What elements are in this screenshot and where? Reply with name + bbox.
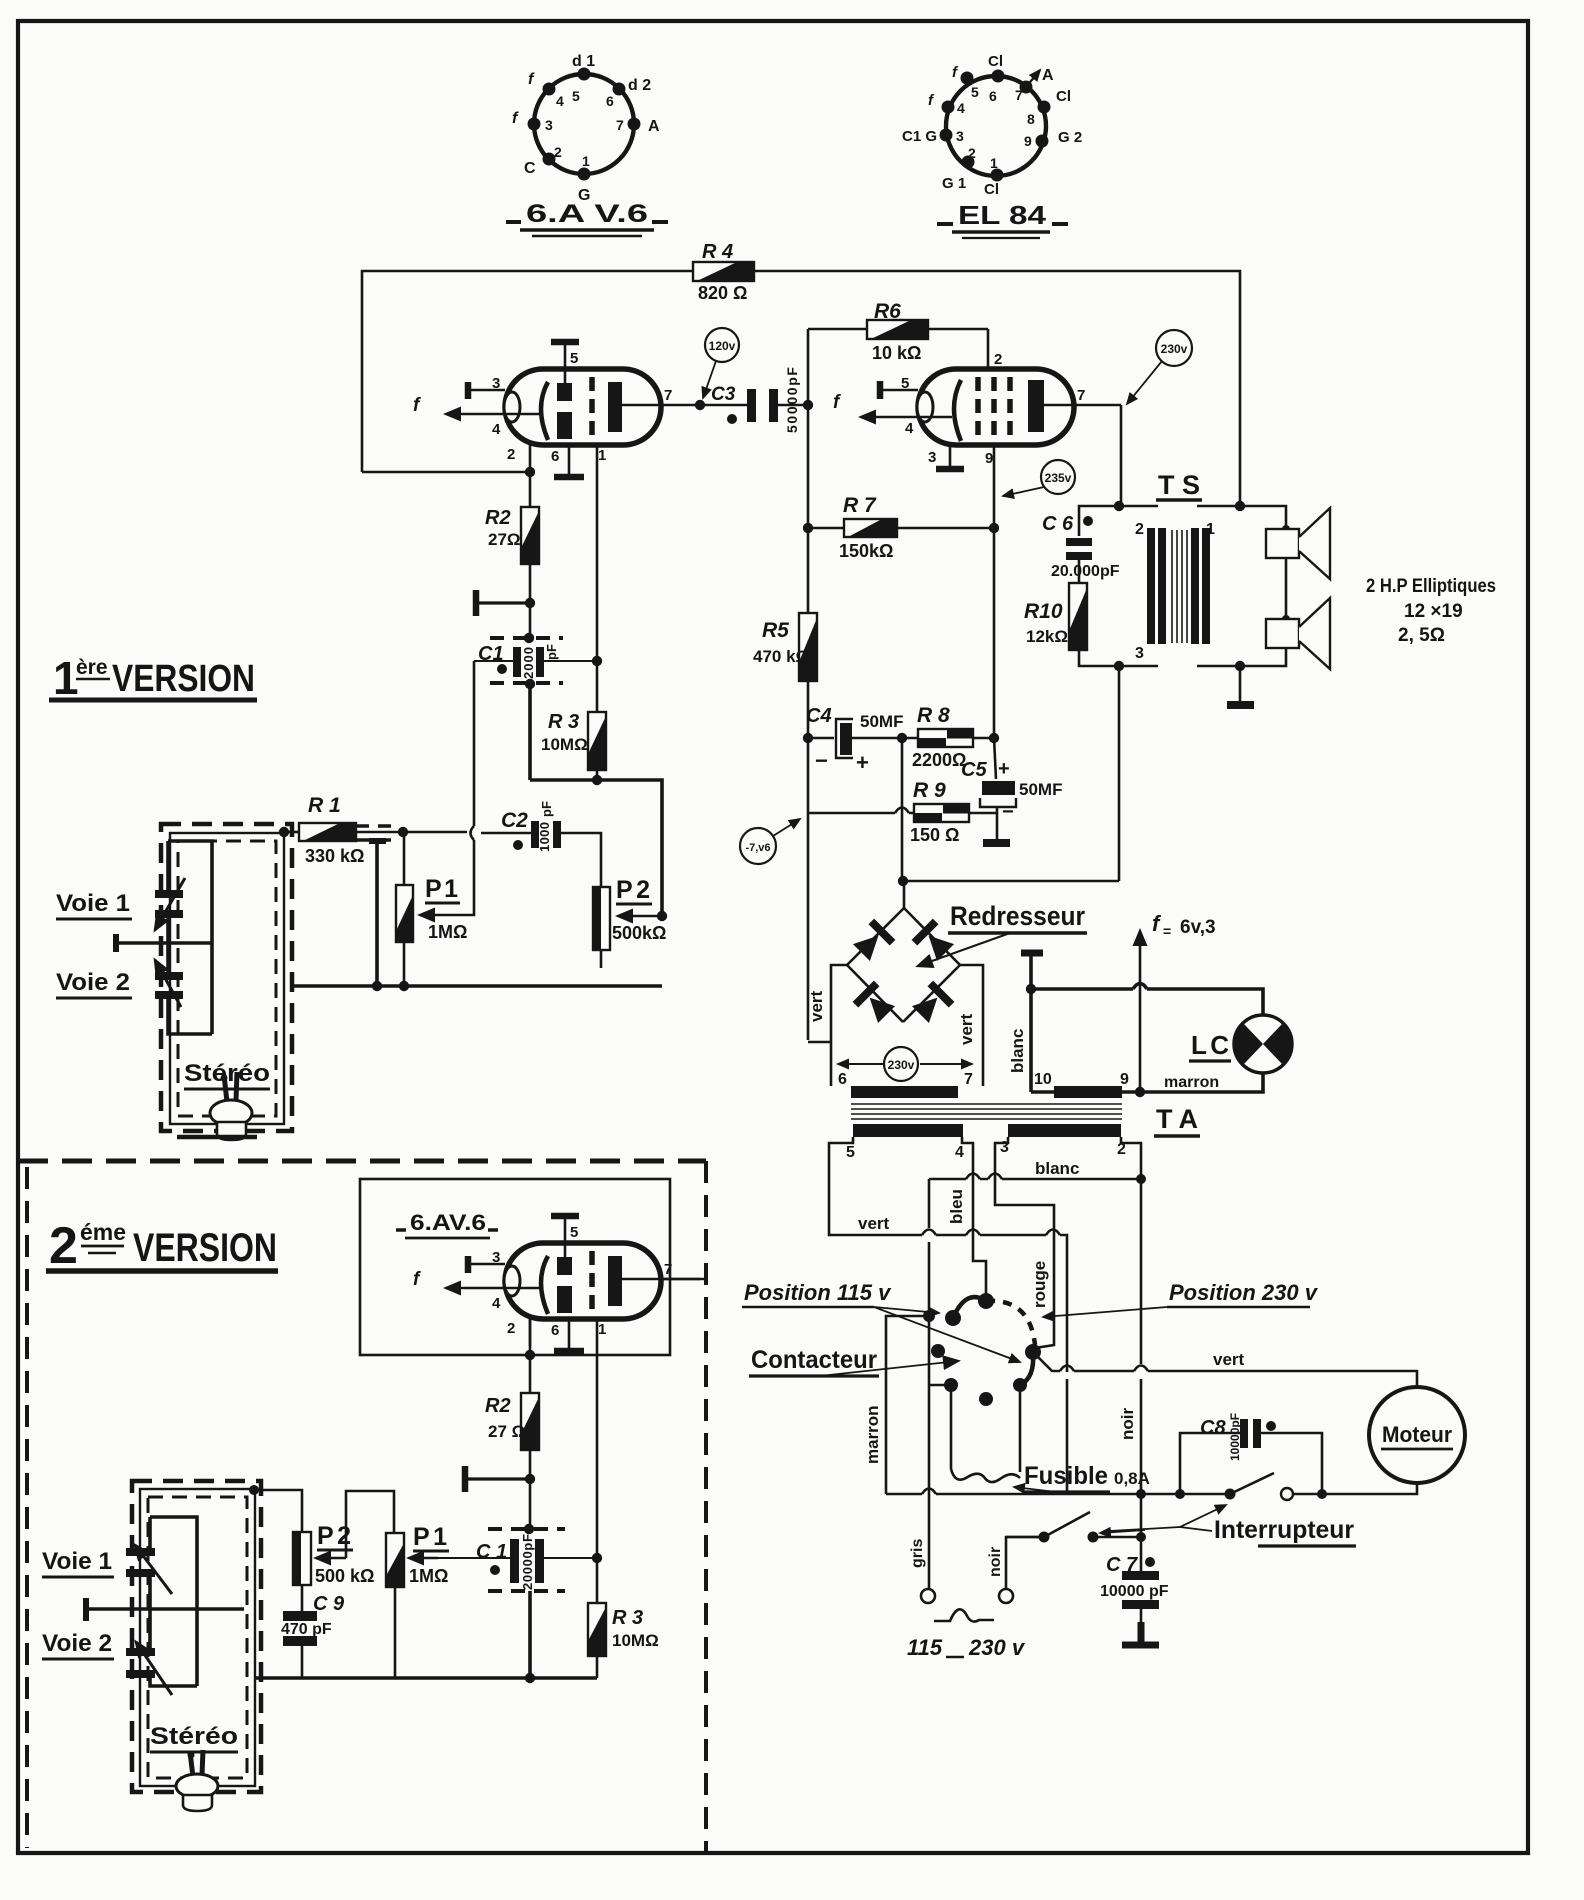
wire TA pin10 to terminal bbox=[1031, 1090, 1054, 1094]
chassis stub at R2 bottom bbox=[476, 590, 535, 616]
node bridge plus bbox=[898, 876, 908, 886]
svg-text:=: = bbox=[1163, 923, 1171, 939]
svg-text:5: 5 bbox=[901, 375, 909, 392]
svg-text:C 1: C 1 bbox=[476, 1541, 507, 1563]
svg-text:230 v: 230 v bbox=[968, 1635, 1026, 1660]
node R1/P1 bbox=[398, 827, 408, 837]
svg-text:235v: 235v bbox=[1045, 471, 1072, 485]
svg-text:230v: 230v bbox=[1161, 342, 1188, 356]
svg-text:330 kΩ: 330 kΩ bbox=[305, 846, 364, 866]
capacitor C9 470pF bbox=[281, 1585, 345, 1678]
bridge rectifier diamond bbox=[847, 908, 960, 1022]
pentode EL84 bbox=[833, 351, 1121, 469]
svg-text:blanc: blanc bbox=[1035, 1159, 1079, 1178]
rotor arm B-C solid bbox=[953, 1297, 986, 1318]
transformer TS primary loop bbox=[1079, 506, 1158, 666]
hop over f line bbox=[1133, 984, 1147, 990]
transformer TS secondary loop bbox=[1197, 506, 1286, 666]
label LC bbox=[1189, 1030, 1231, 1061]
wire grid node vertical (R6 to R5) bbox=[807, 329, 810, 613]
label Voie 1 (v2) bbox=[42, 1548, 114, 1577]
wire blanc horizontal bbox=[929, 1178, 1141, 1181]
svg-text:LC: LC bbox=[1191, 1030, 1229, 1060]
svg-text:9: 9 bbox=[1120, 1071, 1129, 1088]
wire C1 left plate down to P1 wiper (long) bbox=[420, 661, 474, 915]
resistor R2 (v2) bbox=[485, 1393, 539, 1450]
rotor arm D-H solid bbox=[1020, 1352, 1033, 1385]
wire C1 v2 shield to bottom bus bbox=[528, 1591, 532, 1678]
svg-text:20.000pF: 20.000pF bbox=[1051, 563, 1120, 580]
wire C1 shield down to ground bus bbox=[528, 684, 532, 780]
node R5 bottom / C4 bbox=[803, 733, 813, 743]
svg-text:6v,3: 6v,3 bbox=[1180, 917, 1216, 938]
TS secondary winding bars bbox=[1191, 528, 1199, 644]
f 6v3 arrow line bbox=[1139, 931, 1142, 1092]
voie 1 terminal v2 bbox=[86, 1598, 244, 1621]
wire pin1 v2 down bbox=[596, 1319, 599, 1603]
ground at TS secondary bbox=[1227, 666, 1254, 705]
node C3 output bbox=[803, 400, 813, 410]
svg-text:1: 1 bbox=[53, 652, 79, 704]
svg-text:1MΩ: 1MΩ bbox=[409, 1566, 448, 1586]
svg-text:1: 1 bbox=[990, 155, 998, 171]
resistor R3 (v2) bbox=[588, 1603, 659, 1678]
voltage circle -7,v6 bbox=[740, 819, 800, 864]
svg-text:P 1: P 1 bbox=[413, 1523, 447, 1551]
wire pin2 down to R2 v2 bbox=[529, 1319, 532, 1393]
svg-text:4: 4 bbox=[556, 93, 564, 109]
svg-text:Cl: Cl bbox=[1056, 88, 1071, 105]
svg-text:4: 4 bbox=[492, 421, 501, 438]
node pin2 junction bbox=[525, 467, 535, 477]
svg-text:C3: C3 bbox=[711, 384, 736, 405]
svg-text:500kΩ: 500kΩ bbox=[612, 923, 666, 943]
svg-text:vert: vert bbox=[1213, 1350, 1245, 1369]
svg-text:120v: 120v bbox=[709, 339, 736, 353]
resistor R9 150 bbox=[910, 779, 996, 845]
svg-text:Contacteur: Contacteur bbox=[751, 1346, 877, 1374]
diode top-right bbox=[912, 919, 957, 964]
svg-text:Position 115 v: Position 115 v bbox=[744, 1280, 892, 1305]
wire P1 bottom v2 bbox=[394, 1587, 397, 1678]
wire gris/A vertical bbox=[928, 1179, 931, 1589]
svg-text:9: 9 bbox=[985, 450, 993, 467]
wire pin7 to separator bbox=[661, 1278, 704, 1281]
svg-text:R 4: R 4 bbox=[702, 241, 733, 263]
wire R2 v2 to chassis stub bbox=[529, 1450, 532, 1529]
svg-text:gris: gris bbox=[909, 1539, 926, 1568]
node B+ at TS secondary top bbox=[1235, 501, 1245, 511]
contacteur contact B bbox=[945, 1310, 961, 1326]
svg-text:C 9: C 9 bbox=[313, 1593, 345, 1615]
svg-text:C2: C2 bbox=[501, 809, 528, 832]
P2 bottom stub bbox=[600, 950, 603, 968]
stereo solid box v2 bbox=[140, 1489, 255, 1786]
svg-text:Redresseur: Redresseur bbox=[950, 901, 1085, 931]
svg-text:3: 3 bbox=[956, 128, 964, 144]
potentiometer P2 500k bbox=[593, 876, 666, 950]
svg-text:6.A V.6: 6.A V.6 bbox=[526, 200, 648, 228]
svg-text:2200Ω: 2200Ω bbox=[912, 750, 966, 770]
svg-text:Cl: Cl bbox=[984, 181, 999, 198]
svg-text:VERSION: VERSION bbox=[133, 1226, 277, 1270]
label 115 230 v bbox=[907, 1635, 1026, 1660]
node noir at bus bbox=[1136, 1489, 1146, 1499]
svg-text:470 pF: 470 pF bbox=[281, 1621, 332, 1638]
svg-text:marron: marron bbox=[1164, 1074, 1219, 1091]
svg-text:vert: vert bbox=[957, 1013, 976, 1045]
wire TA-2 down to noir node bbox=[1121, 1137, 1141, 1179]
svg-text:Voie 1: Voie 1 bbox=[42, 1548, 112, 1575]
svg-text:-7,v6: -7,v6 bbox=[745, 842, 770, 854]
node stereo out v2 bbox=[249, 1485, 259, 1495]
wire P1 bottom to bus bbox=[403, 942, 406, 986]
contacteur contact A bbox=[923, 1310, 935, 1322]
solid segment under v1 box bbox=[177, 1135, 257, 1140]
label Fusible 0,8A bbox=[1014, 1462, 1150, 1492]
svg-text:2: 2 bbox=[49, 1217, 78, 1275]
svg-text:G 1: G 1 bbox=[942, 175, 966, 192]
P2 wiper arrow v2 bbox=[316, 1557, 346, 1559]
label 2eme VERSION bbox=[46, 1217, 278, 1275]
v2 bottom bus bbox=[255, 1676, 597, 1680]
svg-text:6: 6 bbox=[551, 448, 559, 465]
node shield line at bus bbox=[372, 981, 382, 991]
node TS pin3 bottom bbox=[1114, 661, 1124, 671]
svg-text:5: 5 bbox=[570, 350, 578, 367]
label 6.AV.6 (v2) bbox=[396, 1210, 498, 1238]
resistor R1 330k bbox=[279, 794, 365, 866]
crystal element voie 2 v2 bbox=[126, 1642, 172, 1695]
svg-text:12 ×19: 12 ×19 bbox=[1404, 601, 1463, 622]
interrupteur (secteur) in bus bbox=[1225, 1473, 1294, 1500]
svg-text:VERSION: VERSION bbox=[112, 658, 255, 700]
svg-text:pF: pF bbox=[539, 801, 554, 817]
wire C2 to P2 top bbox=[561, 833, 601, 887]
svg-text:+: + bbox=[998, 758, 1010, 780]
svg-text:5: 5 bbox=[846, 1144, 855, 1161]
shield dashes after R1 bbox=[356, 826, 399, 840]
svg-text:noir: noir bbox=[1118, 1408, 1137, 1440]
node f line at marron wire bbox=[1135, 1087, 1145, 1097]
stereo inner dashed box v2 bbox=[148, 1497, 247, 1778]
DIN plug v1 bbox=[210, 1072, 252, 1140]
wire cathode pin2 junction bbox=[362, 471, 530, 474]
version separator dashed horizontal bbox=[18, 1159, 706, 1164]
svg-text:rouge: rouge bbox=[1030, 1261, 1049, 1308]
svg-text:A: A bbox=[648, 118, 660, 135]
svg-text:3: 3 bbox=[545, 117, 553, 133]
wire EL84 cathode pin9 down bbox=[993, 445, 996, 738]
svg-text:3: 3 bbox=[1135, 645, 1144, 662]
svg-text:2: 2 bbox=[1135, 521, 1144, 538]
diode bottom-right bbox=[910, 981, 955, 1026]
svg-text:10: 10 bbox=[1034, 1071, 1052, 1088]
svg-text:C1 G 3: C1 G 3 bbox=[902, 128, 950, 145]
contacteur contact D bbox=[1025, 1344, 1041, 1360]
svg-text:T S: T S bbox=[1158, 470, 1200, 500]
wire R1 to C2 bbox=[356, 832, 531, 833]
stereo outer dashed box v2 bbox=[132, 1481, 261, 1792]
v1 ground bus bottom bbox=[290, 984, 662, 988]
node pin2 on box edge bbox=[525, 1350, 535, 1360]
svg-text:50MF: 50MF bbox=[860, 712, 903, 731]
label TS bbox=[1156, 470, 1202, 500]
wire top B+ loop left bbox=[362, 271, 695, 472]
svg-text:R2: R2 bbox=[485, 1395, 511, 1417]
label TA bbox=[1154, 1104, 1200, 1136]
svg-text:R 3: R 3 bbox=[612, 1607, 643, 1629]
label Stereo v2 bbox=[150, 1723, 238, 1752]
wire node down to P1 top bbox=[403, 832, 406, 885]
svg-text:10000pF: 10000pF bbox=[1228, 1413, 1242, 1461]
resistor R7 bbox=[803, 494, 999, 561]
svg-text:Moteur: Moteur bbox=[1382, 1422, 1452, 1447]
wire bridge plus up bbox=[903, 881, 906, 908]
speaker HP2 bbox=[1266, 598, 1330, 669]
svg-text:bleu: bleu bbox=[947, 1189, 966, 1224]
stereo pickup inner dashed box v1 bbox=[178, 841, 276, 1116]
wire EL84 anode to TS bbox=[1120, 405, 1123, 506]
svg-text:C5: C5 bbox=[961, 759, 987, 781]
lamp LC bbox=[1234, 1015, 1292, 1073]
svg-text:P 1: P 1 bbox=[425, 875, 458, 903]
svg-text:Cl: Cl bbox=[988, 53, 1003, 70]
version separator dashed vertical left edge bbox=[25, 1167, 29, 1848]
heater wire to LC with hop bbox=[1031, 989, 1263, 1016]
bridge AC loop right bbox=[960, 965, 983, 1086]
tube socket diagram EL84 bbox=[902, 53, 1082, 198]
crystal element voie 2 bbox=[155, 960, 183, 1007]
label Voie 2 (v2) bbox=[42, 1630, 114, 1659]
svg-text:+: + bbox=[856, 750, 869, 775]
svg-text:50MF: 50MF bbox=[1019, 780, 1062, 799]
svg-text:6: 6 bbox=[989, 88, 997, 104]
node -7v6 on R9 wire bbox=[897, 733, 907, 743]
voie 1 input terminal bbox=[116, 934, 212, 952]
svg-text:2: 2 bbox=[994, 351, 1002, 368]
node heater wire bbox=[1026, 984, 1036, 994]
svg-text:500 kΩ: 500 kΩ bbox=[315, 1566, 374, 1586]
v2 wire stereo out to P2 bbox=[254, 1490, 302, 1532]
resistor R5 bbox=[753, 613, 817, 738]
stereo pickup outer dashed box v1 bbox=[161, 824, 292, 1131]
capacitor C6 20000pF bbox=[1042, 513, 1120, 580]
svg-text:Stéréo: Stéréo bbox=[150, 1723, 238, 1750]
svg-text:115: 115 bbox=[907, 1635, 943, 1660]
svg-text:10MΩ: 10MΩ bbox=[541, 735, 588, 754]
svg-text:Voie 1: Voie 1 bbox=[56, 890, 130, 917]
svg-text:150kΩ: 150kΩ bbox=[839, 541, 893, 561]
svg-text:3: 3 bbox=[492, 375, 500, 392]
wire pin2 down to R2 bbox=[529, 472, 532, 507]
node TS secondary bottom / ground bbox=[1235, 661, 1245, 671]
wire TS primary bottom to B+ node bbox=[1118, 666, 1121, 881]
secteur sine symbol bbox=[934, 1609, 994, 1621]
transformer TA primary winding 3-2 bbox=[1008, 1124, 1121, 1137]
wire R2 to chassis stub bbox=[529, 564, 532, 637]
label f = 6v,3 bbox=[1152, 911, 1216, 939]
capacitor C2 1000pF bbox=[501, 801, 561, 852]
svg-text:C 6: C 6 bbox=[1042, 513, 1074, 535]
svg-text:d 1: d 1 bbox=[572, 53, 595, 70]
svg-text:9: 9 bbox=[1024, 133, 1032, 149]
wire pin1 of 6AV6 down to C1/R3 node bbox=[596, 445, 599, 661]
node noir top bbox=[1136, 1174, 1146, 1184]
contacteur contact E bbox=[931, 1344, 945, 1358]
wire LC bottom to TA pin9 (marron) bbox=[1122, 1073, 1263, 1092]
label Position 230 v bbox=[1043, 1280, 1319, 1317]
svg-text:G 2: G 2 bbox=[1058, 129, 1082, 146]
voltage circle 235v bbox=[1003, 460, 1075, 496]
svg-text:820 Ω: 820 Ω bbox=[698, 283, 747, 303]
v2 enclosure box around 6AV6 bbox=[360, 1179, 670, 1355]
svg-text:470 kΩ: 470 kΩ bbox=[753, 647, 809, 666]
pickup internal wires v2 bbox=[150, 1517, 197, 1686]
shield stub terminal on wire bbox=[369, 841, 386, 986]
svg-text:Fusible: Fusible bbox=[1024, 1462, 1108, 1490]
potentiometer P1 1M bbox=[396, 875, 467, 942]
ground bus wire under C1/R3 bbox=[530, 780, 662, 915]
transformer TA heater winding (10-9) bbox=[1054, 1086, 1122, 1098]
wire F to gris line bbox=[930, 1384, 951, 1387]
wire hop over R1-C2 line bbox=[471, 826, 475, 840]
node TS pin2 top bbox=[1114, 501, 1124, 511]
svg-text:6: 6 bbox=[606, 93, 614, 109]
svg-text:6.AV.6: 6.AV.6 bbox=[410, 1210, 486, 1235]
svg-text:d 2: d 2 bbox=[628, 77, 651, 94]
P1 wiper arrow v2 (from C1 wire) bbox=[409, 1557, 438, 1559]
wire HP1 to HP2 bbox=[1285, 558, 1288, 619]
svg-text:Interrupteur: Interrupteur bbox=[1214, 1516, 1354, 1544]
svg-text:2: 2 bbox=[507, 446, 515, 463]
svg-text:ère: ère bbox=[76, 656, 108, 679]
svg-text:3: 3 bbox=[928, 449, 936, 466]
voltage circle 120v bbox=[703, 328, 739, 398]
contacteur contact F bbox=[944, 1378, 958, 1392]
node R3 bottom bbox=[592, 775, 602, 785]
svg-text:7: 7 bbox=[664, 387, 672, 404]
svg-text:pF: pF bbox=[544, 644, 559, 660]
svg-text:10 kΩ: 10 kΩ bbox=[872, 343, 921, 363]
capacitor C7 to ground bbox=[1100, 1554, 1169, 1645]
diode top-left bbox=[851, 919, 896, 964]
svg-text:−: − bbox=[1002, 801, 1014, 823]
capacitor C8 bridge over switch bbox=[1175, 1413, 1327, 1499]
resistor R3 10M bbox=[541, 661, 606, 780]
P2 wiper arrow bbox=[618, 915, 660, 917]
svg-text:7: 7 bbox=[616, 117, 624, 133]
wire H down to fuse bbox=[1019, 1385, 1022, 1472]
TA core lines bbox=[851, 1104, 1122, 1119]
capacitor C3 50000pF bbox=[700, 367, 806, 433]
svg-text:50000pF: 50000pF bbox=[784, 367, 800, 433]
svg-text:R 8: R 8 bbox=[917, 704, 950, 727]
contacteur contact H bbox=[1013, 1378, 1027, 1392]
terminal gris (open circle) bbox=[921, 1589, 935, 1603]
svg-text:EL 84: EL 84 bbox=[958, 200, 1047, 230]
TS core lines bbox=[1172, 530, 1187, 643]
svg-text:7: 7 bbox=[1015, 87, 1023, 103]
resistor R2 bbox=[485, 507, 539, 564]
resistor R6 bbox=[808, 300, 988, 369]
svg-text:A: A bbox=[1042, 67, 1054, 84]
svg-text:8: 8 bbox=[1027, 111, 1035, 127]
transformer TA primary winding 5-4 bbox=[853, 1124, 963, 1137]
svg-text:noir: noir bbox=[987, 1547, 1004, 1577]
triode 6AV6 (1st version) bbox=[413, 341, 700, 477]
wire noir plug terminal bbox=[1006, 1537, 1044, 1589]
svg-text:27Ω: 27Ω bbox=[488, 530, 521, 549]
svg-text:1000: 1000 bbox=[537, 822, 552, 852]
terminal noir (open circle) bbox=[999, 1589, 1013, 1603]
label 1ere VERSION bbox=[49, 652, 257, 704]
wire TA-4 bleu down bbox=[962, 1137, 986, 1295]
svg-text:1: 1 bbox=[582, 153, 590, 169]
version separator dashed vertical bbox=[704, 1161, 708, 1853]
svg-text:R5: R5 bbox=[762, 619, 789, 642]
wire D to moteur vert with hops bbox=[1033, 1352, 1417, 1388]
DIN plug v2 bbox=[176, 1750, 218, 1811]
label Contacteur bbox=[749, 1346, 958, 1376]
svg-text:4: 4 bbox=[955, 1144, 964, 1161]
svg-text:2000: 2000 bbox=[521, 647, 536, 679]
bus hop over gris bbox=[922, 1489, 936, 1495]
vert wire hops bbox=[922, 1230, 1060, 1236]
svg-text:blanc: blanc bbox=[1008, 1029, 1027, 1073]
ground under C5 bbox=[983, 807, 1010, 843]
label 6.AV.6 under socket bbox=[506, 200, 668, 236]
wire A to marron bbox=[886, 1316, 929, 1494]
svg-text:2: 2 bbox=[554, 144, 562, 160]
interrupteur (moteur) lower switch bbox=[1006, 1512, 1146, 1543]
svg-text:Voie 2: Voie 2 bbox=[42, 1630, 112, 1657]
node R8/C5/pin9 bbox=[989, 733, 999, 743]
moteur bbox=[1369, 1387, 1465, 1483]
heater terminal bar bbox=[1021, 953, 1043, 1092]
nodes on v2 bottom bus bbox=[525, 1673, 535, 1683]
capacitor C1 2000pF shielded bbox=[474, 633, 602, 689]
wire -7v6 node down to B+ horizontal bbox=[902, 738, 1119, 881]
svg-text:10MΩ: 10MΩ bbox=[612, 1631, 659, 1650]
bridge AC loop left bbox=[808, 965, 847, 1086]
transformer TA HV winding (6-7) bbox=[851, 1086, 958, 1098]
resistor R4 bbox=[693, 241, 754, 303]
svg-text:R 3: R 3 bbox=[548, 711, 579, 733]
triode 6AV6 (2nd version) bbox=[413, 1215, 700, 1351]
v2 wire P2 wiper loop to P1 top bbox=[346, 1491, 394, 1558]
wire TA-5 vert down and across bbox=[829, 1137, 1067, 1494]
230v double arrow bbox=[838, 1047, 972, 1081]
svg-text:vert: vert bbox=[807, 990, 826, 1022]
speaker HP1 bbox=[1266, 508, 1330, 579]
svg-text:12kΩ: 12kΩ bbox=[1026, 627, 1068, 646]
svg-text:230v: 230v bbox=[888, 1058, 915, 1072]
diode bottom-left bbox=[853, 981, 898, 1026]
svg-text:C8: C8 bbox=[1200, 1417, 1226, 1439]
svg-text:R 7: R 7 bbox=[843, 494, 877, 517]
svg-text:Voie 2: Voie 2 bbox=[56, 969, 130, 996]
tube socket diagram 6.AV.6 bbox=[512, 53, 660, 204]
resistor R10 12k bbox=[1024, 583, 1087, 650]
label EL84 under socket bbox=[937, 200, 1068, 238]
svg-text:27 Ω: 27 Ω bbox=[488, 1422, 525, 1441]
contacteur contact G bbox=[979, 1392, 993, 1406]
wire F down to fuse bbox=[950, 1385, 953, 1469]
svg-text:7: 7 bbox=[1077, 387, 1085, 404]
stereo pickup solid box v1 bbox=[170, 833, 284, 1124]
svg-text:R10: R10 bbox=[1024, 600, 1063, 623]
